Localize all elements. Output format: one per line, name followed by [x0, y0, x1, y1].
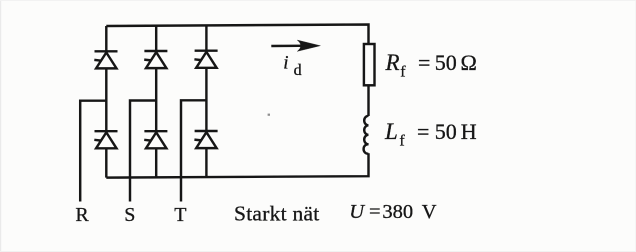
thyristor T4 (bottom row, phase R)	[94, 131, 117, 148]
wire: top DC rail	[106, 25, 368, 45]
svg-text:50: 50	[435, 50, 457, 75]
thyristor T2 (top row, phase S)	[144, 51, 167, 68]
thyristor T6 (bottom row, phase T)	[194, 131, 217, 148]
wire: resistor to inductor	[367, 85, 369, 116]
svg-text:380: 380	[382, 201, 413, 223]
wire: phase S jog and lead	[130, 101, 156, 202]
label Rf = 50 Ohm	[385, 50, 477, 81]
wire: phase R jog and lead	[80, 101, 106, 202]
inductor Lf (coil)	[364, 116, 369, 154]
wire: column 2 thyristor T2 anode down to bottom thyristor T5	[155, 68, 157, 131]
svg-text:R: R	[75, 204, 89, 226]
wire: phase T jog and lead	[181, 100, 206, 201]
wire: inductor to bottom rail, bottom DC rail	[106, 153, 368, 177]
thyristor T5 (bottom row, phase S)	[144, 131, 167, 148]
svg-text:f: f	[399, 133, 405, 150]
label i_d	[283, 52, 301, 79]
svg-text:=: =	[418, 50, 430, 75]
resistor Rf (rectangle body)	[364, 44, 375, 85]
current arrow id (head)	[297, 40, 320, 51]
wire: column 1 to bottom rail	[105, 148, 107, 177]
svg-text:V: V	[422, 201, 437, 223]
svg-text:d: d	[294, 62, 302, 79]
thyristor T1 (top row, phase R)	[94, 51, 117, 68]
svg-text:L: L	[384, 119, 398, 144]
label U = 380 V	[349, 201, 437, 223]
current arrow id (shaft)	[271, 44, 312, 47]
wire: column 1 thyristor T1 anode down to bottom thyristor T4	[105, 68, 107, 131]
svg-text:i: i	[283, 52, 288, 73]
svg-text:=: =	[417, 119, 429, 144]
wire: column 3 to bottom rail	[205, 148, 207, 177]
wire: column 2 to bottom rail	[155, 148, 157, 177]
svg-text:T: T	[174, 204, 186, 226]
wire: column 3 from top rail to thyristor 3	[205, 25, 207, 50]
wire: column 3 thyristor T3 anode down to bottom thyristor T6	[205, 68, 207, 131]
svg-text:Starkt nät: Starkt nät	[234, 201, 320, 225]
scan edge shading (decorative frame omitted from labels)	[0, 0, 1, 252]
svg-text:Ω: Ω	[461, 50, 477, 75]
wire: column 1 from top rail to thyristor 1	[105, 26, 107, 51]
thyristor T3 (top row, phase T)	[194, 51, 217, 68]
label Lf = 50 H	[384, 119, 477, 150]
svg-text:S: S	[124, 204, 135, 226]
svg-text:U: U	[349, 201, 365, 223]
svg-text:f: f	[400, 63, 406, 80]
svg-text:50: 50	[435, 119, 457, 144]
speck artifact	[268, 114, 270, 116]
wire: column 2 from top rail to thyristor 2	[155, 26, 157, 51]
svg-text:H: H	[461, 119, 477, 144]
svg-text:=: =	[369, 201, 381, 223]
svg-text:R: R	[385, 50, 400, 75]
